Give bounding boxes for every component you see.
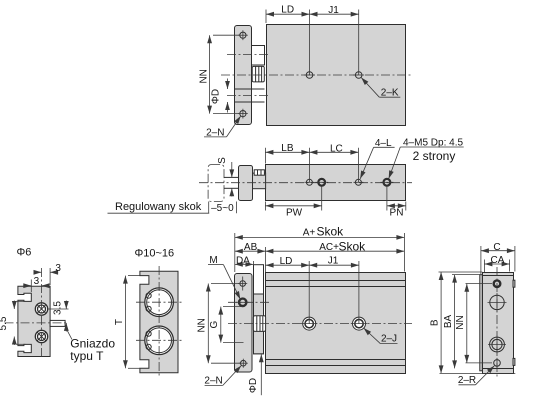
- T-nut slot tongue (phi6 view): [50, 320, 65, 326]
- counterbore hole J2 (bottom view): [351, 317, 367, 330]
- label Phi6: [17, 247, 32, 259]
- label Gniazdo typu T: [65, 326, 115, 362]
- lower rod through plate (top view): [234, 89, 265, 102]
- dimension 3.5 (phi6 view): [47, 301, 69, 332]
- svg-text:Regulowany skok: Regulowany skok: [115, 201, 202, 213]
- svg-text:AC+: AC+: [319, 242, 339, 253]
- stroke-adjust dashed block (side view): [208, 165, 224, 202]
- dimension J1 (bottom view): [309, 256, 359, 324]
- plate hole top (bottom view): [238, 277, 247, 291]
- horizontal centerline top bore (phi10-16 view): [136, 301, 182, 303]
- centerline main axis (top view): [221, 74, 412, 76]
- body hole K2 (top view): [353, 72, 364, 79]
- svg-text:Skok: Skok: [317, 225, 345, 239]
- svg-text:2–N: 2–N: [204, 375, 222, 386]
- dimension A+Skok (bottom view): [235, 225, 405, 272]
- dimension PW (side view): [265, 187, 321, 219]
- svg-text:LC: LC: [330, 144, 343, 155]
- plate hole bottom (bottom view): [239, 359, 248, 368]
- dimension B (end view): [429, 272, 515, 373]
- dimension LB (side view): [265, 143, 309, 182]
- bore circle top (phi10-16 view): [145, 288, 174, 317]
- svg-text:LD: LD: [280, 256, 293, 267]
- centerline horizontal (phi6 view): [5, 322, 67, 324]
- dimension J1 (top view): [310, 5, 359, 75]
- dimension AB (bottom view): [235, 242, 266, 253]
- port hole 1 (side view): [304, 179, 314, 185]
- upper rod boss (top view): [252, 46, 265, 66]
- rod bushing block (bottom view): [254, 265, 264, 354]
- dimension PhiD (bottom view): [248, 354, 261, 395]
- svg-text:NN: NN: [455, 315, 466, 329]
- svg-text:BA: BA: [443, 315, 454, 329]
- centerline main axis (side view): [199, 182, 412, 184]
- T-slot notch bottom right (end view): [513, 358, 515, 365]
- centerline M-hole axis (bottom view): [228, 301, 270, 303]
- svg-text:LD: LD: [281, 5, 294, 16]
- dimension LD (bottom view): [266, 256, 310, 324]
- centerline main axis (bottom view): [228, 323, 412, 325]
- mounting plate (bottom view): [235, 274, 253, 373]
- dimension AC+Skok (bottom view): [265, 239, 404, 272]
- dimension PhiD (top view): [211, 79, 228, 113]
- svg-text:NN: NN: [197, 318, 208, 332]
- centerline vertical through holes (phi6 view): [41, 268, 43, 358]
- screw hole bottom (phi6 view): [35, 330, 47, 342]
- lock nut (side view): [254, 170, 264, 175]
- plate hole top (top view): [238, 30, 248, 40]
- svg-text:G: G: [209, 320, 220, 328]
- rod slab between flange and body (side view): [253, 173, 266, 189]
- svg-text:AB: AB: [244, 242, 258, 253]
- flange (side view): [239, 166, 253, 201]
- svg-text:Φ10~16: Φ10~16: [135, 248, 175, 260]
- svg-text:2 strony: 2 strony: [413, 149, 456, 163]
- svg-text:CA: CA: [491, 255, 505, 266]
- svg-text:ΦD: ΦD: [248, 378, 259, 393]
- svg-text:B: B: [429, 319, 440, 326]
- body hole K1 (top view): [304, 72, 315, 79]
- bore circle (end view): [488, 293, 507, 312]
- label 2-R (end view): [458, 366, 494, 386]
- label Phi10~16: [135, 248, 175, 260]
- screw hole top (phi6 view): [35, 303, 47, 315]
- hole R2 (end view): [466, 358, 501, 368]
- label Regulowany skok (side view): [108, 201, 210, 213]
- dimension 3 upper (phi6 view): [34, 263, 62, 285]
- svg-text:J1: J1: [328, 256, 339, 267]
- dimension -5~0 (side view): [209, 202, 237, 215]
- port hole 2 tapped (side view): [315, 179, 328, 186]
- counterbore hole J1 (bottom view): [301, 317, 317, 330]
- dimension G (bottom view): [209, 307, 244, 343]
- dimension C (end view): [481, 242, 515, 274]
- svg-text:NN: NN: [199, 69, 210, 83]
- svg-text:–5~0: –5~0: [211, 203, 234, 214]
- dimension LD (top view): [266, 5, 310, 75]
- body with notches (phi10-16 view): [140, 271, 178, 373]
- dimension 5.5 (phi6 view): [0, 301, 25, 346]
- svg-text:3.5: 3.5: [53, 301, 64, 315]
- body (bottom view): [266, 273, 406, 374]
- label 4-M5 Dp:4.5 (side view): [389, 138, 464, 179]
- plate edge strip (end view): [480, 275, 483, 371]
- centerline lower rod axis (top view): [227, 95, 270, 97]
- svg-text:A+: A+: [303, 227, 316, 238]
- svg-text:T: T: [114, 319, 125, 325]
- dimension DA (bottom view): [235, 255, 254, 266]
- dimension NN (bottom view): [197, 284, 241, 364]
- label 2-N (top view): [204, 116, 241, 138]
- counterbore hole (end view): [488, 336, 506, 354]
- svg-text:PW: PW: [286, 208, 303, 219]
- svg-text:ΦD: ΦD: [211, 89, 222, 104]
- body (side view): [266, 165, 406, 201]
- port hole 3 (side view): [353, 179, 363, 185]
- lock nut (bottom view): [253, 316, 265, 332]
- vertical centerline (phi10-16 view): [158, 266, 160, 378]
- vertical centerline (end view): [496, 267, 498, 378]
- body with T-slots (phi6 view): [18, 286, 50, 356]
- svg-text:S: S: [217, 157, 228, 164]
- svg-text:3: 3: [34, 276, 40, 287]
- dimension PN (side view): [387, 187, 406, 219]
- svg-text:DA: DA: [236, 255, 250, 266]
- svg-text:J1: J1: [328, 5, 339, 16]
- dimension S (side view): [217, 157, 232, 197]
- label 2-N (bottom view): [204, 366, 241, 387]
- svg-text:Skok: Skok: [339, 239, 367, 253]
- svg-text:typu T: typu T: [70, 349, 104, 363]
- svg-text:3: 3: [55, 263, 61, 274]
- dimension CA (end view): [484, 255, 509, 272]
- horizontal centerline bottom bore (phi10-16 view): [136, 339, 182, 341]
- label 4-L (side view): [360, 138, 394, 179]
- label 2-J (bottom view): [364, 328, 398, 345]
- port hole 4 tapped (side view): [380, 179, 393, 186]
- piston rod (side view): [224, 177, 238, 188]
- M tapped hole (bottom view): [236, 299, 249, 306]
- body (top view): [267, 25, 406, 126]
- dimension LC (side view): [309, 144, 358, 183]
- dimension NN (end view): [455, 284, 467, 363]
- body (end view): [483, 273, 514, 374]
- svg-text:Φ6: Φ6: [17, 247, 32, 259]
- svg-text:2–R: 2–R: [458, 375, 476, 386]
- dimension 3 lower (phi6 view): [23, 276, 49, 292]
- svg-text:PN: PN: [390, 208, 404, 219]
- label 2 strony (side view): [413, 149, 456, 163]
- dimension T (phi10-16 view): [114, 276, 140, 369]
- dimension BA (end view): [443, 275, 483, 369]
- svg-text:C: C: [493, 242, 500, 253]
- svg-text:5.5: 5.5: [0, 316, 9, 330]
- centerline upper rod axis (top view): [227, 54, 270, 56]
- lock nut (top view): [252, 66, 264, 82]
- svg-text:LB: LB: [281, 143, 294, 154]
- hole R1 tapped (end view): [466, 280, 501, 287]
- dimension NN (top view): [199, 35, 240, 113]
- label 2-K (top view): [361, 78, 400, 99]
- label M (bottom view): [208, 255, 240, 299]
- T-slot notch top right (end view): [513, 280, 515, 287]
- bore circle bottom (phi10-16 view): [145, 326, 174, 355]
- mounting plate (top view): [235, 26, 252, 125]
- svg-text:2–J: 2–J: [381, 334, 397, 345]
- plate hole bottom (top view): [238, 109, 248, 119]
